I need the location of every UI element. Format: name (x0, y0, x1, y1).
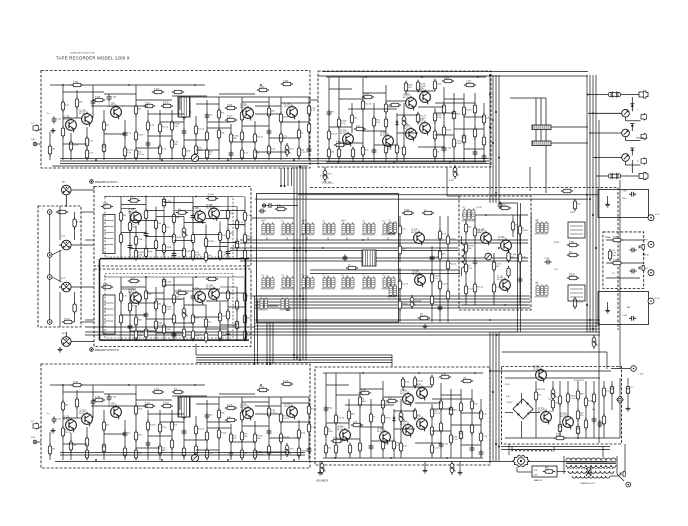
junction bus net 8 (299, 359, 301, 361)
wire stage column (393, 409, 395, 458)
capacitor 640 µ (449, 405, 458, 416)
label a (105, 222, 106, 224)
wire link E4 (148, 413, 184, 415)
ground input (51, 128, 56, 133)
resistor (162, 242, 172, 254)
wire stage column (206, 400, 208, 460)
junction matrix 3 (362, 239, 364, 241)
wire stage column (70, 133, 72, 160)
junction pa 1 (334, 457, 336, 459)
wire stage column (218, 97, 220, 160)
ground input (51, 428, 56, 433)
svg-text:Q 401: Q 401 (337, 425, 344, 428)
wire switch link lower 3 (255, 301, 530, 303)
resistor (225, 115, 237, 121)
resistor R663 (573, 297, 583, 309)
svg-text:7 µ: 7 µ (525, 461, 528, 463)
resistor (172, 388, 184, 393)
wire link A17 (148, 135, 172, 137)
resistor (464, 80, 476, 86)
svg-text:Q 303: Q 303 (403, 93, 410, 96)
wire link D7 (156, 298, 184, 300)
resistor (452, 137, 462, 149)
wire power amp top rail (326, 76, 486, 78)
switch contact group low 1 (259, 295, 268, 310)
junction pre 3 (170, 258, 172, 260)
wire bold board left edge (99, 259, 101, 341)
svg-text:2 µ: 2 µ (47, 413, 50, 415)
svg-text:4,7k: 4,7k (195, 335, 199, 337)
wire link A1 (63, 91, 104, 93)
wire A to B link (310, 99, 318, 101)
label maker name (71, 51, 95, 54)
svg-text:1k: 1k (301, 133, 303, 135)
DIN connector output (62, 337, 72, 347)
wire stage column (400, 399, 402, 458)
resistor (206, 194, 218, 200)
wire stage column (236, 207, 238, 260)
wire stage column (86, 427, 88, 460)
wire stage column (382, 381, 384, 458)
capacitor (473, 149, 478, 156)
wire link 1 (63, 117, 81, 119)
wire link B3 (363, 92, 386, 94)
connector TO B (648, 298, 654, 304)
svg-text:56k: 56k (176, 217, 179, 219)
label b (105, 230, 106, 232)
capacitor C 101 (52, 416, 61, 423)
label 110V (534, 470, 539, 472)
wire vertical bus B1 lower (489, 332, 491, 461)
wire stage column (171, 410, 173, 460)
wire din 2 to preamp (71, 244, 94, 246)
svg-text:R 663: R 663 (554, 242, 559, 244)
wire stage column (443, 87, 445, 162)
wire speaker center to plug (626, 140, 641, 142)
wire central bus 6 (85, 334, 600, 336)
trimmer RT1 (485, 253, 492, 260)
wire switch tick 4 (105, 238, 114, 240)
junction pre 2 (145, 196, 147, 198)
svg-text:Q 502: Q 502 (548, 411, 554, 413)
wire stage column (434, 81, 436, 89)
resistor (204, 250, 211, 262)
resistor (235, 218, 245, 230)
svg-text:a b: a b (280, 295, 282, 297)
svg-text:BC 149: BC 149 (240, 407, 246, 409)
resistor (584, 418, 587, 430)
wire link F18 (336, 438, 360, 440)
svg-text:AC 151: AC 151 (337, 428, 343, 431)
capacitor (267, 428, 272, 435)
svg-text:B 40: B 40 (506, 396, 510, 398)
resistor (69, 440, 76, 452)
resistor (85, 136, 93, 148)
wire stage column (236, 287, 238, 341)
capacitor bias top (498, 201, 503, 208)
resistor (267, 406, 276, 418)
resistor 10k (226, 208, 233, 220)
wire relay b2 (570, 292, 583, 294)
capacitor bank R (532, 141, 551, 146)
capacitor bank L (532, 125, 551, 130)
svg-text:R 1,5k: R 1,5k (577, 302, 583, 304)
switch contact group low 2 (280, 295, 289, 310)
wire link C7 (156, 216, 184, 218)
svg-text:V 301: V 301 (320, 176, 325, 178)
connector mains earth (626, 482, 631, 487)
wire din 3 to preamp (71, 286, 94, 288)
resistor (158, 122, 168, 134)
resistor 2,2k (482, 113, 489, 125)
resistor (134, 448, 141, 460)
svg-text:120k: 120k (138, 239, 142, 241)
wire relay t3 (570, 233, 583, 235)
svg-text:Q 501: Q 501 (533, 365, 540, 368)
label stub A2 (31, 139, 35, 141)
svg-text:4,7k: 4,7k (434, 278, 438, 280)
label BAL (627, 306, 630, 309)
svg-text:AC 153K: AC 153K (560, 415, 568, 418)
resistor (218, 311, 226, 323)
resistor headphone 3 (608, 249, 616, 261)
wire stage column (460, 389, 462, 458)
transistor Q103 (108, 402, 121, 419)
transformer secondary winding 1 (566, 465, 616, 468)
resistor (205, 148, 213, 160)
resistor R665 (567, 273, 579, 279)
junction matrix 1 (305, 250, 307, 252)
wire supply col 7 (593, 381, 595, 438)
wire sw rise bottom 7 (387, 275, 389, 278)
connector TO R (648, 215, 654, 221)
wire amp R ground rail 2 (60, 454, 305, 456)
resistor head damp (346, 264, 358, 269)
svg-text:22 µ: 22 µ (592, 409, 596, 411)
resistor (144, 327, 147, 339)
wire preamp L out (251, 217, 294, 219)
wire vertical bus B3 lower (495, 332, 497, 461)
resistor (470, 399, 477, 411)
junction panel 2 (49, 254, 51, 256)
svg-text:C 2: C 2 (631, 387, 634, 389)
resistor (154, 319, 162, 331)
resistor mains filter (543, 467, 555, 473)
capacitor 100 µ (324, 405, 334, 412)
resistor (172, 313, 175, 325)
wire central bus 1 (255, 319, 600, 321)
svg-text:R 330: R 330 (522, 230, 528, 232)
svg-text:5 c 6: 5 c 6 (342, 220, 346, 222)
junction bus net 9 (489, 126, 491, 128)
wire link D6 (130, 302, 156, 304)
wire link E10 (281, 402, 309, 404)
svg-text:TO B: TO B (655, 298, 660, 300)
wire supply bus top 1 (60, 158, 489, 160)
wire cap bank R drop (545, 146, 547, 194)
junction bus net 13 (498, 157, 500, 159)
resistor (551, 398, 560, 410)
resistor 56k (327, 147, 334, 159)
label PREAMP OUTPUT R (95, 349, 119, 352)
wire transformer right lead (616, 456, 618, 474)
resistor (461, 377, 473, 382)
svg-text:R 305: R 305 (361, 389, 366, 391)
potentiometer RV 1 (285, 143, 294, 157)
node preamp out b (286, 307, 290, 311)
wire sw drop top 7 (387, 237, 389, 240)
svg-text:Q 301: Q 301 (340, 129, 347, 132)
wire sw rise bottom 2 (286, 275, 288, 278)
resistor R141 (422, 209, 434, 214)
resistor (267, 444, 270, 456)
wire link F19 (371, 440, 394, 442)
wire stub E2 (37, 441, 41, 443)
svg-text:120k: 120k (222, 316, 226, 318)
svg-text:C 661: C 661 (622, 191, 627, 193)
svg-text:4,7k: 4,7k (227, 118, 231, 120)
speaker center (622, 129, 630, 137)
label 220u (622, 198, 627, 200)
svg-text:4,7k: 4,7k (311, 110, 315, 112)
resistor (433, 111, 442, 123)
capacitor 47 n (327, 109, 335, 116)
wire stage column (86, 127, 88, 160)
dashed box preamp L inner (105, 197, 233, 258)
wire link C4 (193, 206, 220, 208)
junction stage 6 (227, 459, 229, 461)
svg-text:47k: 47k (569, 251, 572, 253)
wire left long run (85, 326, 255, 328)
wire stage column (402, 377, 404, 391)
resistor 56k (350, 113, 357, 125)
wire bias col 5 (519, 215, 521, 305)
resistor 22k (324, 443, 331, 455)
wire link E15 (281, 421, 309, 423)
svg-text:a b c: a b c (341, 274, 345, 276)
wire stage column (254, 121, 256, 160)
capacitor (307, 146, 312, 153)
svg-text:4,7k: 4,7k (453, 439, 457, 441)
resistor input shunt L (73, 217, 83, 229)
wire transformer core bottom (566, 462, 616, 464)
wire link F12 (461, 412, 481, 414)
wire stage column (171, 110, 173, 160)
wire stage column (434, 108, 436, 162)
junction pa 5 (449, 161, 451, 163)
wire interbox drop 2 (284, 168, 286, 186)
wire stage column (183, 98, 185, 160)
node preamp output L (90, 180, 94, 184)
wire link F15 (394, 428, 415, 430)
svg-text:C 47n: C 47n (301, 152, 306, 154)
junction pa 5 (446, 457, 448, 459)
junction bus 4 (498, 247, 500, 249)
svg-text:47k: 47k (580, 415, 583, 417)
resistor (218, 329, 225, 341)
wire link A6 (196, 103, 219, 105)
wire coil top (461, 236, 463, 244)
potentiometer volume L (323, 168, 332, 182)
svg-text:R 113: R 113 (154, 88, 159, 90)
wire link D9 (206, 300, 228, 302)
svg-text:a b c: a b c (261, 274, 265, 276)
wire panel out 2 (81, 321, 94, 323)
svg-text:0,77: 0,77 (31, 421, 34, 423)
capacitor C 104 (107, 94, 116, 101)
wire motor down (516, 467, 518, 472)
resistor (172, 293, 182, 305)
wire vertical bus C4 (595, 75, 597, 332)
svg-text:R 118: R 118 (227, 104, 232, 106)
wire preamp top rail (104, 196, 244, 198)
svg-text:BC 149: BC 149 (128, 212, 134, 214)
junction bus net 1 (293, 247, 295, 249)
svg-text:VOLUME L: VOLUME L (322, 183, 334, 185)
wire relay b1 (570, 288, 583, 290)
wire bias right rail (530, 214, 532, 300)
resistor R 305 (362, 93, 374, 98)
label 4ohm2 (612, 273, 615, 275)
resistor input shunt R (73, 302, 76, 314)
capacitor (307, 446, 312, 453)
wire din mic out (71, 189, 94, 191)
wire link B7 (406, 90, 435, 92)
wire stage column (206, 100, 208, 160)
wire amp R ground rail (60, 452, 305, 454)
svg-text:1k: 1k (437, 152, 439, 154)
svg-text:C 47n: C 47n (434, 299, 439, 301)
switch contact group top 6 (362, 220, 376, 235)
resistor (307, 122, 310, 134)
svg-text:4,7k: 4,7k (442, 234, 446, 236)
wire stage column (227, 277, 229, 341)
head block (178, 97, 190, 117)
wire lower bus 2 (196, 357, 392, 359)
svg-text:10k: 10k (577, 204, 580, 206)
wire link B16 (435, 134, 454, 136)
junction pre 1 (120, 258, 122, 260)
resistor (182, 108, 191, 120)
capacitor (182, 428, 187, 435)
box output B network (598, 292, 649, 325)
wire link E8 (242, 401, 269, 403)
wire stage column (62, 385, 64, 460)
wire filter top (627, 378, 629, 384)
label +12V (638, 374, 644, 376)
resistor (240, 448, 247, 460)
label VOLUME L (322, 183, 334, 185)
svg-text:CENTER CH: CENTER CH (636, 138, 648, 140)
plug mains (620, 472, 625, 477)
resistor (279, 132, 288, 144)
choke winding (512, 450, 552, 452)
wire stage column (417, 113, 419, 123)
junction pa 4 (421, 76, 423, 78)
wire panel out 1 (81, 211, 94, 213)
junction bus net 24 (498, 446, 500, 448)
label LEFT (643, 240, 648, 242)
switch contact group bottom 1 (261, 274, 275, 289)
resistor (253, 132, 263, 144)
dashed box bias oscillator (459, 196, 531, 310)
wire link E2 (104, 393, 136, 395)
wire matrix drop 2 (269, 322, 271, 364)
wire sw drop top 2 (286, 237, 288, 240)
wire supply rail top (505, 377, 600, 379)
potentiometer (402, 114, 407, 128)
junction stage 2 (95, 159, 97, 161)
wire preamp R drop 2 (257, 300, 259, 364)
resistor (442, 125, 451, 137)
wire link A10 (281, 102, 309, 104)
svg-text:120k: 120k (328, 431, 332, 433)
resistor (69, 140, 79, 152)
wire link E19 (231, 441, 255, 443)
wire to din 3 (52, 277, 62, 282)
resistor (170, 120, 180, 132)
transistor Q304 (403, 124, 416, 141)
resistor (334, 413, 344, 425)
svg-text:4,7k: 4,7k (244, 153, 248, 155)
bridge rectifier B501 (513, 399, 533, 419)
wire stage column (351, 103, 353, 133)
wire panel to preamp (85, 319, 94, 321)
wire stage column (129, 291, 131, 341)
svg-text:R 1,5k: R 1,5k (402, 284, 408, 286)
connector aux R (47, 320, 52, 325)
wire bias top rail (462, 214, 528, 216)
svg-text:a b c: a b c (462, 206, 466, 208)
svg-text:47k: 47k (388, 149, 391, 151)
resistor (225, 416, 237, 421)
junction bus net 3 (299, 295, 301, 297)
wire stage column (219, 222, 221, 260)
resistor (172, 90, 184, 93)
wire link C10 (228, 224, 245, 226)
svg-text:1,5k: 1,5k (402, 229, 406, 231)
svg-text:0,77: 0,77 (31, 123, 34, 125)
resistor (297, 128, 303, 140)
svg-text:1k: 1k (348, 264, 350, 266)
resistor bias top (499, 204, 511, 209)
label L (637, 109, 639, 111)
junction bus net 27 (284, 185, 286, 187)
resistor R 118 (225, 104, 237, 109)
transistor Q101 (63, 115, 76, 132)
transformer secondary winding 3 (572, 476, 610, 478)
wire relay t2 (570, 229, 583, 231)
wire link F21 (461, 444, 481, 446)
resistor bias R6 (507, 250, 517, 262)
junction stage 7 (260, 384, 262, 386)
svg-text:BC 149: BC 149 (79, 113, 85, 115)
resistor (430, 272, 440, 284)
resistor (361, 99, 371, 111)
svg-text:15k: 15k (52, 149, 55, 151)
wire stage column (431, 377, 433, 385)
transistor Q205 (192, 207, 205, 224)
resistor (176, 209, 188, 214)
wire +12 rail (490, 370, 611, 372)
capacitor 10 µ (123, 430, 132, 437)
junction bias 1 (485, 214, 487, 216)
record play head L (362, 250, 376, 266)
wire supply rail bottom (505, 437, 600, 439)
capacitor main filter (626, 384, 629, 395)
transistor Q501 (533, 365, 546, 382)
resistor input R (62, 318, 74, 323)
